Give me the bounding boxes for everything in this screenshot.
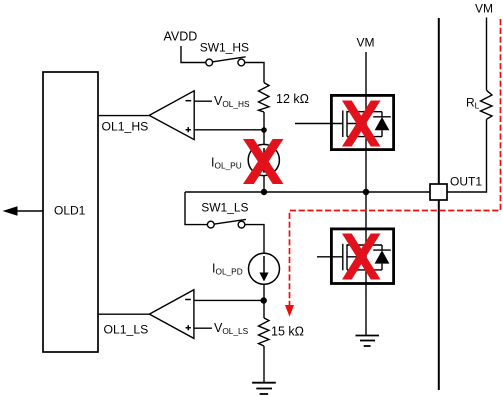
svg-text:VM: VM [475, 2, 493, 16]
svg-text:SW1_LS: SW1_LS [201, 201, 248, 215]
svg-text:AVDD: AVDD [164, 30, 198, 44]
svg-text:OL1_HS: OL1_HS [102, 120, 149, 134]
svg-text:VM: VM [357, 36, 375, 50]
svg-text:OLD1: OLD1 [54, 204, 86, 218]
svg-text:SW1_HS: SW1_HS [200, 40, 249, 54]
svg-text:OUT1: OUT1 [450, 175, 482, 189]
svg-text:12 kΩ: 12 kΩ [276, 92, 309, 106]
svg-text:OL1_LS: OL1_LS [104, 323, 149, 337]
svg-text:15 kΩ: 15 kΩ [271, 325, 304, 339]
